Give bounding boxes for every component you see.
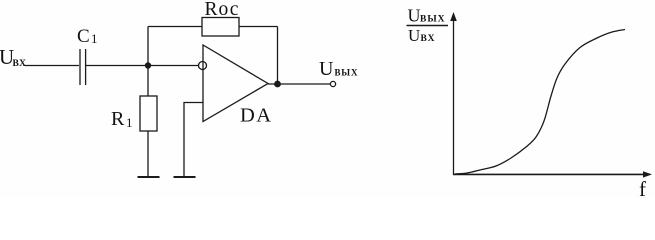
svg-text:U: U	[408, 26, 420, 45]
graph y-axis	[453, 18, 455, 175]
ground below non-inverting input	[174, 176, 196, 178]
wire op-amp output	[268, 83, 331, 85]
svg-text:1: 1	[91, 31, 98, 46]
node axis label Uвых/Uвх	[408, 6, 446, 46]
svg-text:1: 1	[126, 115, 133, 130]
node output junction dot	[274, 81, 281, 88]
capacitor C1	[77, 26, 98, 85]
op-amp DA	[199, 45, 273, 127]
svg-text:ВЫХ: ВЫХ	[335, 68, 359, 78]
svg-text:C: C	[77, 26, 90, 47]
curve frequency response	[455, 30, 625, 175]
svg-text:f: f	[639, 177, 646, 197]
wire R1 branch vertical	[147, 66, 149, 97]
graph x-axis	[453, 173, 646, 175]
resistor R1	[111, 96, 157, 131]
svg-text:Rос: Rос	[205, 0, 240, 20]
wire feedback top-right horizontal	[239, 26, 278, 28]
wire input Uвх to C1	[25, 65, 79, 67]
svg-text:ВХ: ВХ	[421, 34, 436, 44]
svg-text:U: U	[408, 6, 421, 26]
ground below R1	[138, 176, 160, 178]
node A junction dot	[145, 62, 151, 68]
wire feedback right vertical	[277, 27, 279, 85]
svg-text:DA: DA	[240, 105, 273, 127]
wire non-inverting input lead	[184, 103, 203, 178]
svg-text:ВЫХ: ВЫХ	[420, 15, 446, 25]
wire R1 to ground	[147, 131, 149, 177]
wire C1 to inverting input	[86, 65, 198, 67]
svg-text:U: U	[319, 58, 334, 80]
node Uвых output terminal	[330, 81, 335, 86]
node Uвх input terminal label	[0, 45, 26, 69]
wire feedback left vertical	[147, 27, 149, 66]
svg-text:R: R	[111, 108, 125, 130]
resistor Roc	[202, 0, 239, 36]
svg-text:ВХ: ВХ	[13, 59, 27, 69]
wire feedback top-left horizontal	[148, 26, 202, 28]
